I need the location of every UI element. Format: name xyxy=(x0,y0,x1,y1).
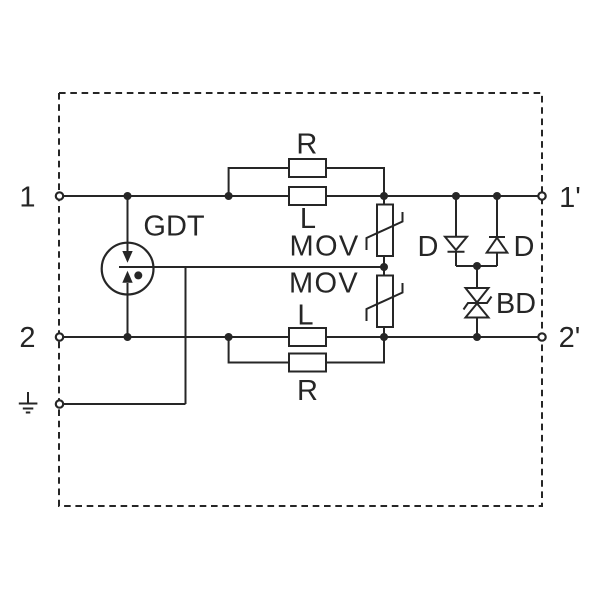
svg-text:D: D xyxy=(418,231,439,263)
svg-text:2': 2' xyxy=(559,322,581,354)
svg-text:R: R xyxy=(297,375,318,407)
svg-text:MOV: MOV xyxy=(289,268,359,300)
svg-text:2: 2 xyxy=(19,322,35,354)
svg-text:R: R xyxy=(296,129,317,161)
svg-text:MOV: MOV xyxy=(290,231,360,263)
svg-text:GDT: GDT xyxy=(143,210,205,242)
svg-text:D: D xyxy=(514,231,535,263)
svg-text:1': 1' xyxy=(559,182,581,214)
svg-text:1: 1 xyxy=(19,182,35,214)
svg-text:BD: BD xyxy=(496,288,536,320)
svg-text:L: L xyxy=(297,299,313,331)
